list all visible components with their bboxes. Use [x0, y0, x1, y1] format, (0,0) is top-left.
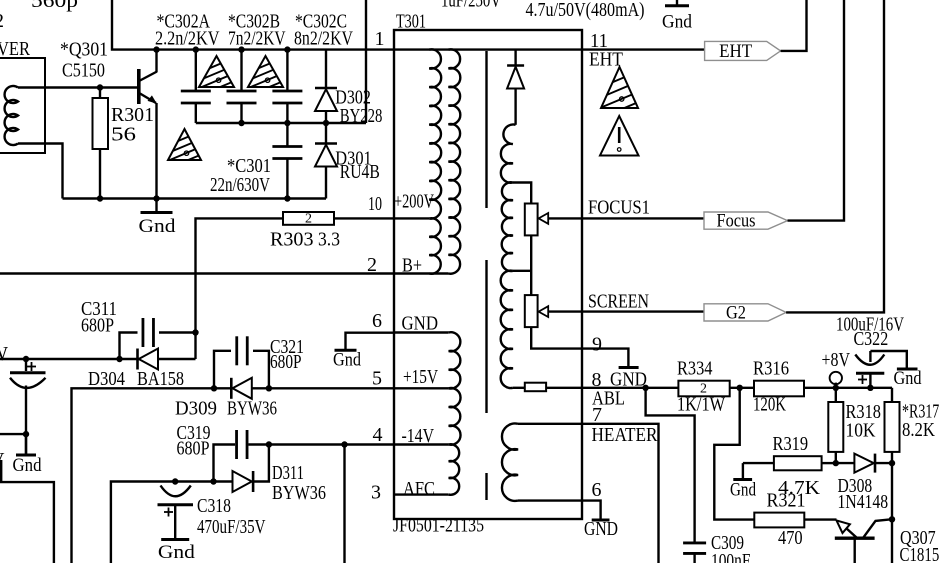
- wire focus tap: [513, 183, 531, 204]
- svg-text:ABL: ABL: [592, 388, 625, 410]
- svg-text:C5150: C5150: [62, 60, 105, 82]
- svg-text:560p: 560p: [31, 0, 78, 12]
- wire ABL branch to C309: [646, 388, 695, 542]
- wire B+ rail from left edge: [0, 272, 394, 274]
- svg-text:B+: B+: [402, 255, 422, 277]
- wire -14V pin4 internal: [394, 443, 449, 445]
- wire from left edge to cap: [0, 433, 26, 435]
- wire coil bottom to ground rail: [18, 144, 63, 199]
- capacitor C302A: [195, 50, 197, 90]
- svg-text:56: 56: [111, 124, 136, 146]
- resistor R334: [678, 381, 729, 397]
- svg-text:120K: 120K: [753, 394, 786, 416]
- node D309 left: [211, 385, 217, 391]
- svg-text:680P: 680P: [270, 351, 302, 373]
- svg-text:EHT: EHT: [589, 49, 623, 71]
- svg-text:470: 470: [778, 527, 803, 549]
- resistor R301: [99, 88, 101, 99]
- svg-text:R316: R316: [753, 358, 789, 380]
- capacitor C309: [683, 542, 706, 545]
- node C302C bottom: [284, 120, 290, 126]
- svg-text:2: 2: [367, 254, 377, 276]
- secondary HV winding: [501, 125, 516, 389]
- wire GND pin6 internal: [394, 331, 449, 333]
- svg-text:5: 5: [372, 368, 382, 390]
- svg-text:1N4148: 1N4148: [838, 491, 889, 513]
- svg-text:BYW36: BYW36: [272, 482, 326, 504]
- diode D311: [233, 471, 252, 492]
- svg-text:D304: D304: [88, 368, 125, 390]
- resistor R303: [334, 217, 394, 219]
- wire C319 left corner down: [214, 445, 236, 482]
- diode D301: [325, 123, 327, 143]
- node left cap to -V wire: [23, 431, 29, 437]
- node R317 bottom: [889, 460, 895, 466]
- screen wiper arrow: [539, 306, 549, 317]
- transistor Q307: [837, 520, 850, 533]
- wire coil top to Q301 base: [18, 86, 137, 88]
- potentiometer SCREEN: [525, 295, 538, 327]
- wire G2 flag to top: [786, 0, 884, 312]
- wire from top at x366: [365, 0, 367, 123]
- svg-text:Gnd: Gnd: [333, 350, 361, 371]
- svg-text:22n/630V: 22n/630V: [210, 174, 270, 196]
- lower winding (GND/+15V/-14V/AFC): [449, 332, 461, 495]
- internal ABL resistor: [513, 387, 525, 389]
- svg-text:2: 2: [305, 212, 312, 227]
- node C301 bottom: [284, 195, 290, 201]
- heater winding: [502, 423, 518, 500]
- wire emitter ground rail: [63, 197, 327, 199]
- svg-text:8n2/2KV: 8n2/2KV: [294, 27, 353, 49]
- wire heater top pin7: [518, 424, 659, 563]
- wire pin6 to ground: [582, 501, 601, 519]
- wire top-left vertical into top rail: [112, 0, 394, 50]
- svg-text:2: 2: [0, 10, 4, 32]
- wire -14V rail: [249, 443, 395, 445]
- svg-text:3: 3: [371, 482, 381, 504]
- wire Focus flag to top: [788, 0, 845, 221]
- ground Gnd pin6 left: [335, 349, 357, 352]
- ground Gnd R319: [742, 463, 744, 478]
- svg-text:R303: R303: [270, 229, 314, 251]
- wire R334 to R316: [730, 387, 754, 389]
- node Q301 emitter: [153, 195, 159, 201]
- node C302B top: [238, 46, 244, 52]
- capacitor C321: [214, 351, 231, 389]
- EHT rectifier diode: [514, 50, 516, 65]
- wire R316 to +8V rail: [804, 387, 892, 389]
- wire C322 to Gnd: [870, 351, 906, 368]
- node C302B bottom: [238, 120, 244, 126]
- wire D311 row: [111, 482, 233, 563]
- terminal +8V circle: [830, 372, 842, 384]
- svg-text:10K: 10K: [846, 420, 876, 442]
- wire junction down to R321 path: [714, 388, 754, 520]
- svg-text:680P: 680P: [81, 315, 114, 337]
- transformer T301 box: [394, 30, 582, 519]
- capacitor C302B: [240, 50, 242, 90]
- wire B+ pin2: [394, 272, 449, 274]
- wire collector column: [891, 463, 893, 563]
- wire +15V pin5 internal: [394, 387, 449, 389]
- svg-text:G2: G2: [726, 302, 746, 323]
- svg-text:680P: 680P: [177, 438, 210, 460]
- svg-text:AFC: AFC: [403, 478, 435, 500]
- node -14V C319/D311 right: [266, 441, 272, 447]
- node C302A top: [193, 46, 199, 52]
- focus wiper arrow: [539, 213, 549, 224]
- svg-text:EHT: EHT: [719, 41, 752, 62]
- capacitor C322: [855, 355, 884, 365]
- node R318 bottom: [833, 460, 839, 466]
- ground Gnd top: [676, 0, 678, 5]
- svg-text:RU4B: RU4B: [340, 161, 380, 183]
- svg-text:FOCUS1: FOCUS1: [588, 197, 650, 219]
- svg-text:Gnd: Gnd: [13, 455, 42, 476]
- flag EHT: [705, 41, 781, 60]
- wire EHT flag to top: [781, 0, 807, 51]
- svg-text:R321: R321: [767, 490, 806, 512]
- core line segments: [485, 51, 487, 208]
- svg-text:3.3: 3.3: [318, 229, 340, 251]
- ground Gnd C318: [174, 538, 176, 540]
- primary winding column B: [449, 49, 461, 273]
- wire +200V tap: [394, 217, 429, 219]
- wire focus-screen link: [530, 235, 532, 295]
- svg-text:T301: T301: [396, 11, 426, 33]
- wire pin6 left to ground: [346, 333, 395, 349]
- ground Gnd at Q301: [155, 199, 157, 213]
- node C311 left junction: [116, 356, 122, 362]
- node R301 top: [97, 84, 103, 90]
- diode D308: [836, 462, 855, 464]
- wire pin1 to pin11 internal rail: [394, 48, 582, 50]
- node D302 anode junction: [323, 120, 329, 126]
- svg-text:7n2/2KV: 7n2/2KV: [228, 27, 286, 49]
- svg-text:1K/1W: 1K/1W: [677, 394, 725, 416]
- node C322 stub: [867, 385, 873, 391]
- node Q301 collector on rail: [153, 46, 159, 52]
- node R301 bottom: [97, 195, 103, 201]
- svg-text:BYW36: BYW36: [227, 398, 277, 420]
- svg-text:Gnd: Gnd: [894, 368, 922, 389]
- electrolytic capacitor C318: [172, 478, 178, 484]
- wire pin11 to EHT flag: [582, 48, 705, 50]
- wire D311 to corner up: [254, 445, 269, 482]
- resistor *R317: [891, 388, 893, 402]
- potentiometer FOCUS: [525, 204, 538, 236]
- node Q307 collector: [889, 516, 895, 522]
- capacitor *C301: [286, 123, 288, 146]
- warning triangle: [600, 116, 639, 156]
- ground Gnd left cap: [25, 434, 27, 455]
- svg-text:Gnd: Gnd: [139, 216, 177, 237]
- svg-text:1: 1: [375, 28, 385, 50]
- svg-text:D311: D311: [272, 462, 304, 484]
- wire mid rail: [196, 122, 366, 124]
- svg-text:6: 6: [372, 310, 382, 332]
- wire screen tap: [513, 270, 531, 272]
- wire left bottom corner wire: [0, 482, 54, 563]
- driver transformer box (cut at left): [0, 58, 45, 153]
- ground Gnd C322: [897, 368, 918, 371]
- wire heater bottom pin6: [518, 499, 582, 501]
- capacitor C311: [120, 333, 138, 360]
- svg-text:+8V: +8V: [822, 349, 851, 371]
- primary winding column A: [429, 49, 441, 273]
- svg-text:Gnd: Gnd: [158, 542, 196, 563]
- resistor R319: [743, 462, 774, 464]
- svg-text:2.2n/2KV: 2.2n/2KV: [155, 27, 220, 49]
- capacitor C302C: [286, 50, 288, 90]
- svg-text:8.2K: 8.2K: [902, 419, 935, 441]
- ground GND pin9: [619, 366, 639, 369]
- wire +15V rail to corner: [72, 388, 395, 563]
- wire ABL row: [582, 387, 678, 389]
- svg-text:GND: GND: [402, 313, 439, 335]
- svg-text:R334: R334: [677, 358, 713, 380]
- node D309 right: [266, 385, 272, 391]
- svg-text:+200V: +200V: [394, 191, 434, 213]
- svg-text:10: 10: [368, 193, 382, 215]
- svg-text:C1815: C1815: [900, 544, 940, 563]
- resistor R316: [754, 381, 804, 397]
- diode D304: [136, 349, 139, 370]
- resistor R318: [835, 388, 837, 402]
- svg-text:9: 9: [592, 334, 602, 356]
- svg-text:Focus: Focus: [717, 211, 756, 232]
- wire left edge stub: [0, 460, 2, 482]
- wire -14V branch to bottom: [343, 445, 345, 563]
- svg-text:Gnd: Gnd: [662, 12, 692, 33]
- svg-text:4.7u/50V(480mA): 4.7u/50V(480mA): [526, 0, 645, 21]
- svg-text:-14V: -14V: [402, 425, 435, 447]
- svg-text:+15V: +15V: [403, 366, 438, 388]
- node C311 right junction: [192, 329, 198, 335]
- ground GND pin6 right: [592, 519, 610, 522]
- capacitor C319: [235, 430, 238, 459]
- wire pin9 to ground: [531, 327, 628, 366]
- node C302C top: [284, 46, 290, 52]
- svg-text:VER: VER: [0, 38, 31, 60]
- svg-text:*Q301: *Q301: [60, 39, 108, 61]
- svg-text:D309: D309: [175, 398, 217, 420]
- svg-text:JF0501-21135: JF0501-21135: [393, 515, 484, 537]
- node -14V branch down: [341, 441, 347, 447]
- svg-text:HEATER: HEATER: [592, 424, 659, 446]
- svg-text:C322: C322: [854, 328, 889, 350]
- resistor R321: [754, 513, 804, 528]
- transistor Q301: [137, 69, 141, 104]
- svg-text:6: 6: [592, 479, 602, 501]
- flag Focus: [704, 212, 788, 229]
- svg-text:GND: GND: [584, 518, 618, 540]
- svg-text:C318: C318: [197, 495, 231, 517]
- wire AFC pin3 internal: [394, 493, 449, 495]
- svg-text:Gnd: Gnd: [730, 480, 756, 501]
- svg-text:BA158: BA158: [137, 368, 184, 390]
- node +8V: [833, 385, 839, 391]
- svg-text:470uF/35V: 470uF/35V: [197, 516, 266, 538]
- wire D304 row from left edge: [0, 358, 196, 360]
- svg-text:R319: R319: [773, 433, 809, 455]
- svg-text:1uF/250V: 1uF/250V: [441, 0, 501, 12]
- svg-text:W: W: [0, 343, 8, 365]
- diode D302: [325, 50, 327, 87]
- svg-text:4: 4: [373, 424, 383, 446]
- node ABL branch: [642, 385, 648, 391]
- node D311 left: [210, 478, 216, 484]
- driver coil winding: [5, 86, 18, 145]
- svg-text:BY228: BY228: [340, 105, 383, 127]
- svg-text:100nF: 100nF: [711, 550, 750, 563]
- electrolytic capacitor C310 (left edge): [25, 359, 27, 371]
- flag G2: [704, 304, 786, 321]
- diode D309: [230, 378, 233, 399]
- svg-text:SCREEN: SCREEN: [588, 291, 649, 313]
- node R334/R316 junction: [737, 385, 743, 391]
